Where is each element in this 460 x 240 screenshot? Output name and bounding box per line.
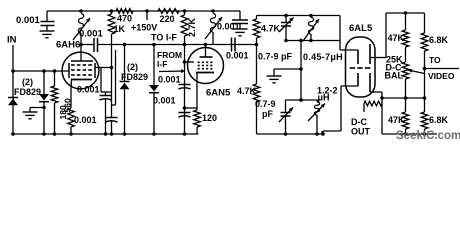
resistor R5 2.7K vertical <box>181 11 188 45</box>
label 6AL5 <box>349 23 373 34</box>
label TO <box>429 55 441 65</box>
label FD829 #2 <box>121 72 148 82</box>
svg-text:560: 560 <box>63 98 73 112</box>
capacitor C8 0.001 coupling <box>232 38 236 52</box>
label (2) #2 <box>127 62 138 72</box>
wire grid 6AH6 <box>13 70 69 72</box>
node <box>380 96 384 100</box>
label L4 1.2-2 <box>317 86 338 96</box>
svg-text:47K: 47K <box>388 33 405 43</box>
wire <box>101 45 112 118</box>
node <box>53 69 57 73</box>
top rail1 +150V <box>47 10 240 12</box>
svg-text:μH: μH <box>318 93 330 103</box>
node <box>183 132 187 136</box>
node <box>152 43 156 47</box>
node <box>110 66 114 70</box>
svg-text:120: 120 <box>202 113 217 123</box>
node <box>423 132 427 136</box>
label C3 0.001 <box>77 85 100 95</box>
node <box>152 132 156 136</box>
wire grid 6AN5 <box>185 61 195 63</box>
svg-text:FD829: FD829 <box>14 87 41 97</box>
resistor R14 6.8K upper <box>421 13 428 69</box>
resistor R2 1K vertical <box>108 11 115 45</box>
node <box>284 132 288 136</box>
6AN5 grids <box>198 62 213 68</box>
svg-text:220: 220 <box>160 14 175 24</box>
node <box>284 14 288 18</box>
wire +150V stub <box>146 11 148 20</box>
svg-text:4.7K: 4.7K <box>261 24 281 34</box>
svg-text:(2): (2) <box>127 62 138 72</box>
capacitor C1 0.001 input bypass <box>41 22 55 31</box>
node <box>299 67 303 71</box>
resistor R6 560 <box>68 108 75 134</box>
resistor R3 470 horizontal <box>116 9 133 14</box>
wire ground tap <box>30 107 44 109</box>
label R15 6.8K <box>429 115 449 125</box>
label R12 D-C <box>386 63 402 73</box>
variable inductor L3 0.45-7uH <box>303 18 319 42</box>
label IN <box>7 35 17 46</box>
wire <box>184 45 186 135</box>
variable capacitor C9 0.7-9pF <box>279 16 294 41</box>
capacitor C6 0.001 <box>179 85 191 90</box>
wire DC return <box>323 86 341 134</box>
potentiometer R12 25K D-C BAL <box>402 62 409 98</box>
svg-text:6.8K: 6.8K <box>429 35 449 45</box>
wire <box>98 44 185 46</box>
node +150V <box>145 9 149 13</box>
6AL5 plate 1 <box>340 50 358 64</box>
node <box>211 9 215 13</box>
wire plate out <box>81 44 94 46</box>
pot wiper <box>408 69 425 74</box>
6AH6 grids <box>69 63 95 78</box>
node <box>123 132 127 136</box>
watermark <box>396 130 460 142</box>
label L3 0.45-7uH <box>303 52 343 62</box>
label +150V <box>131 23 157 33</box>
svg-text:0.001: 0.001 <box>77 85 100 95</box>
node <box>104 132 108 136</box>
label C10 pF <box>262 109 273 119</box>
6AL5 heater <box>350 67 371 69</box>
label R12 BAL <box>385 71 404 81</box>
label R8 4.7K <box>261 24 281 34</box>
svg-text:6AH6: 6AH6 <box>56 40 80 51</box>
diode D4 FD829 <box>149 45 159 135</box>
label C1 0.001 <box>16 15 40 26</box>
resistor R13 47K lower <box>402 98 409 134</box>
6AN5 cathode <box>196 73 214 111</box>
node grid 6AN5 <box>183 60 187 64</box>
node <box>11 132 15 136</box>
node <box>404 11 408 15</box>
ground <box>233 29 248 36</box>
node <box>11 69 15 73</box>
svg-text:6.8K: 6.8K <box>429 115 449 125</box>
svg-text:6AL5: 6AL5 <box>349 23 373 34</box>
ground <box>267 69 282 83</box>
svg-text:pF: pF <box>262 109 273 119</box>
svg-text:2.7K: 2.7K <box>187 17 197 37</box>
node 6AH6 plate <box>79 43 83 47</box>
node <box>299 39 303 43</box>
node <box>315 132 319 136</box>
svg-text:0.001: 0.001 <box>158 75 181 85</box>
svg-text:TO I-F: TO I-F <box>151 33 177 43</box>
ground <box>23 108 38 119</box>
resistor R8 4.7K upper <box>253 16 260 45</box>
6AL5 cathode 2 <box>370 73 382 92</box>
label FD829 #1 <box>14 87 41 97</box>
diode D2 FD829 <box>39 71 49 134</box>
tube 6AH6 envelope <box>62 52 99 89</box>
node <box>69 132 73 136</box>
svg-text:D-C: D-C <box>351 117 367 127</box>
resistor R15 6.8K lower <box>421 98 428 134</box>
svg-text:47K: 47K <box>388 115 405 125</box>
node <box>183 43 187 47</box>
node <box>123 43 127 47</box>
label R9 4.7K <box>237 86 257 96</box>
wire <box>424 69 426 99</box>
svg-text:SeekIC.com: SeekIC.com <box>396 130 460 142</box>
capacitor C3 0.001 screen bypass <box>100 92 112 134</box>
wire screen 6AH6 <box>96 67 112 69</box>
wire IN vertical <box>12 45 14 134</box>
label R2 1K <box>114 24 126 34</box>
svg-text:0.7-9 pF: 0.7-9 pF <box>258 52 293 62</box>
variable inductor L1 <box>73 14 90 45</box>
node <box>309 14 313 18</box>
node <box>404 96 408 100</box>
arrow FROM I-F <box>159 69 185 73</box>
node <box>321 132 325 136</box>
wire <box>382 97 425 99</box>
svg-text:0.001: 0.001 <box>79 29 103 40</box>
node <box>183 9 187 13</box>
label R7 120 <box>202 113 217 123</box>
node <box>284 39 288 43</box>
svg-text:0.001: 0.001 <box>226 51 249 61</box>
node <box>42 132 46 136</box>
6AH6 cathode <box>71 80 92 109</box>
node <box>204 43 208 47</box>
wire <box>300 41 302 101</box>
rail4 <box>386 12 425 14</box>
label R4 220 <box>160 14 175 24</box>
svg-text:OUT: OUT <box>351 127 371 137</box>
wire plate wire <box>185 44 257 46</box>
ground rail left <box>13 133 199 135</box>
node TO VIDEO <box>423 67 427 71</box>
svg-text:6AN5: 6AN5 <box>206 88 231 99</box>
label C4 0.001 <box>74 115 97 125</box>
resistor R11 47K upper <box>402 13 409 62</box>
svg-text:0.7-9: 0.7-9 <box>255 99 276 109</box>
rail3 <box>286 99 319 101</box>
wire TO VIDEO out <box>425 68 460 70</box>
resistor R7 120 <box>194 110 201 134</box>
label FROM I-F <box>157 50 182 69</box>
svg-text:BAL: BAL <box>385 71 404 81</box>
label R3 470 <box>117 14 132 24</box>
capacitor C4 0.001 <box>106 118 118 135</box>
svg-text:4.7K: 4.7K <box>237 86 257 96</box>
svg-text:0.001: 0.001 <box>74 115 97 125</box>
label C2 0.001 <box>79 29 103 40</box>
node <box>299 98 303 102</box>
node <box>404 132 408 136</box>
wire <box>385 13 387 58</box>
svg-text:IN: IN <box>7 35 17 46</box>
wire <box>112 50 116 105</box>
wire rail2 to 6AL5 plate <box>339 16 341 51</box>
6AN5 plate <box>200 45 213 58</box>
capacitor C2 0.001 coupling <box>94 38 98 52</box>
rail2 <box>257 15 341 17</box>
svg-text:TO: TO <box>429 55 441 65</box>
6AL5 cathode 1 <box>370 44 386 64</box>
node <box>42 106 46 110</box>
label C10 0.7-9 <box>255 99 276 109</box>
svg-text:0.001: 0.001 <box>16 15 40 26</box>
wire tank <box>286 40 340 42</box>
label R11 47K <box>388 33 405 43</box>
node <box>423 96 427 100</box>
label 6AN5 <box>206 88 231 99</box>
6AL5 plate 2 <box>341 73 358 86</box>
label R14 6.8K <box>429 35 449 45</box>
label R1 180 <box>58 105 68 119</box>
node <box>309 39 313 43</box>
svg-text:470: 470 <box>117 14 132 24</box>
label C7 0.001 <box>153 96 176 106</box>
resistor R1 180 <box>51 71 58 134</box>
node <box>42 69 46 73</box>
svg-text:1K: 1K <box>114 24 126 34</box>
wire <box>381 92 383 134</box>
label TO I-F <box>151 33 177 43</box>
6AH6 plate <box>71 45 93 62</box>
diode D1 FD829 <box>8 98 18 106</box>
wire cathode link <box>185 107 198 109</box>
tube 6AN5 envelope <box>188 48 224 84</box>
variable inductor L2 <box>205 14 222 45</box>
variable inductor L4 1.2-2uH <box>308 100 325 134</box>
resistor R9 4.7K lower <box>253 45 260 135</box>
capacitor C5 0.001 to ground <box>232 11 248 29</box>
wire <box>46 11 48 21</box>
label C9 0.7-9 pF <box>258 52 293 62</box>
ground <box>40 31 55 38</box>
label D-C OUT <box>351 117 371 137</box>
label L4 uH <box>318 93 330 103</box>
ground rail right <box>382 133 437 135</box>
node <box>79 9 83 13</box>
svg-text:+150V: +150V <box>131 23 157 33</box>
variable capacitor C10 0.7-9pF <box>279 100 293 134</box>
label (2) #1 <box>22 77 33 87</box>
label VIDEO <box>428 71 455 81</box>
label C5 0.001 <box>217 22 240 32</box>
node <box>183 106 187 110</box>
label R6 560 <box>63 98 73 112</box>
tube 6AL5 envelope <box>346 37 376 97</box>
label C8 0.001 <box>226 51 249 61</box>
svg-text:0.45-7μH: 0.45-7μH <box>303 52 343 62</box>
svg-text:VIDEO: VIDEO <box>428 71 455 81</box>
node <box>110 9 114 13</box>
label R5 2.7K <box>187 17 197 37</box>
label C6 0.001 <box>158 75 181 85</box>
node <box>110 132 114 136</box>
label R13 47K <box>388 115 405 125</box>
svg-text:0.001: 0.001 <box>153 96 176 106</box>
resistor R10 47K horizontal <box>364 101 382 112</box>
capacitor C7 0.001 <box>179 113 191 118</box>
label 6AH6 <box>56 40 80 51</box>
node detector input <box>255 43 259 47</box>
resistor R4 220 horizontal <box>158 9 179 14</box>
ground rail middle <box>257 131 323 134</box>
diode D3 FD829 <box>120 45 130 135</box>
node <box>53 132 57 136</box>
svg-text:(2): (2) <box>22 77 33 87</box>
svg-text:I-F: I-F <box>157 59 167 69</box>
label R12 25K <box>386 55 403 65</box>
wire ground tap <box>274 68 301 70</box>
